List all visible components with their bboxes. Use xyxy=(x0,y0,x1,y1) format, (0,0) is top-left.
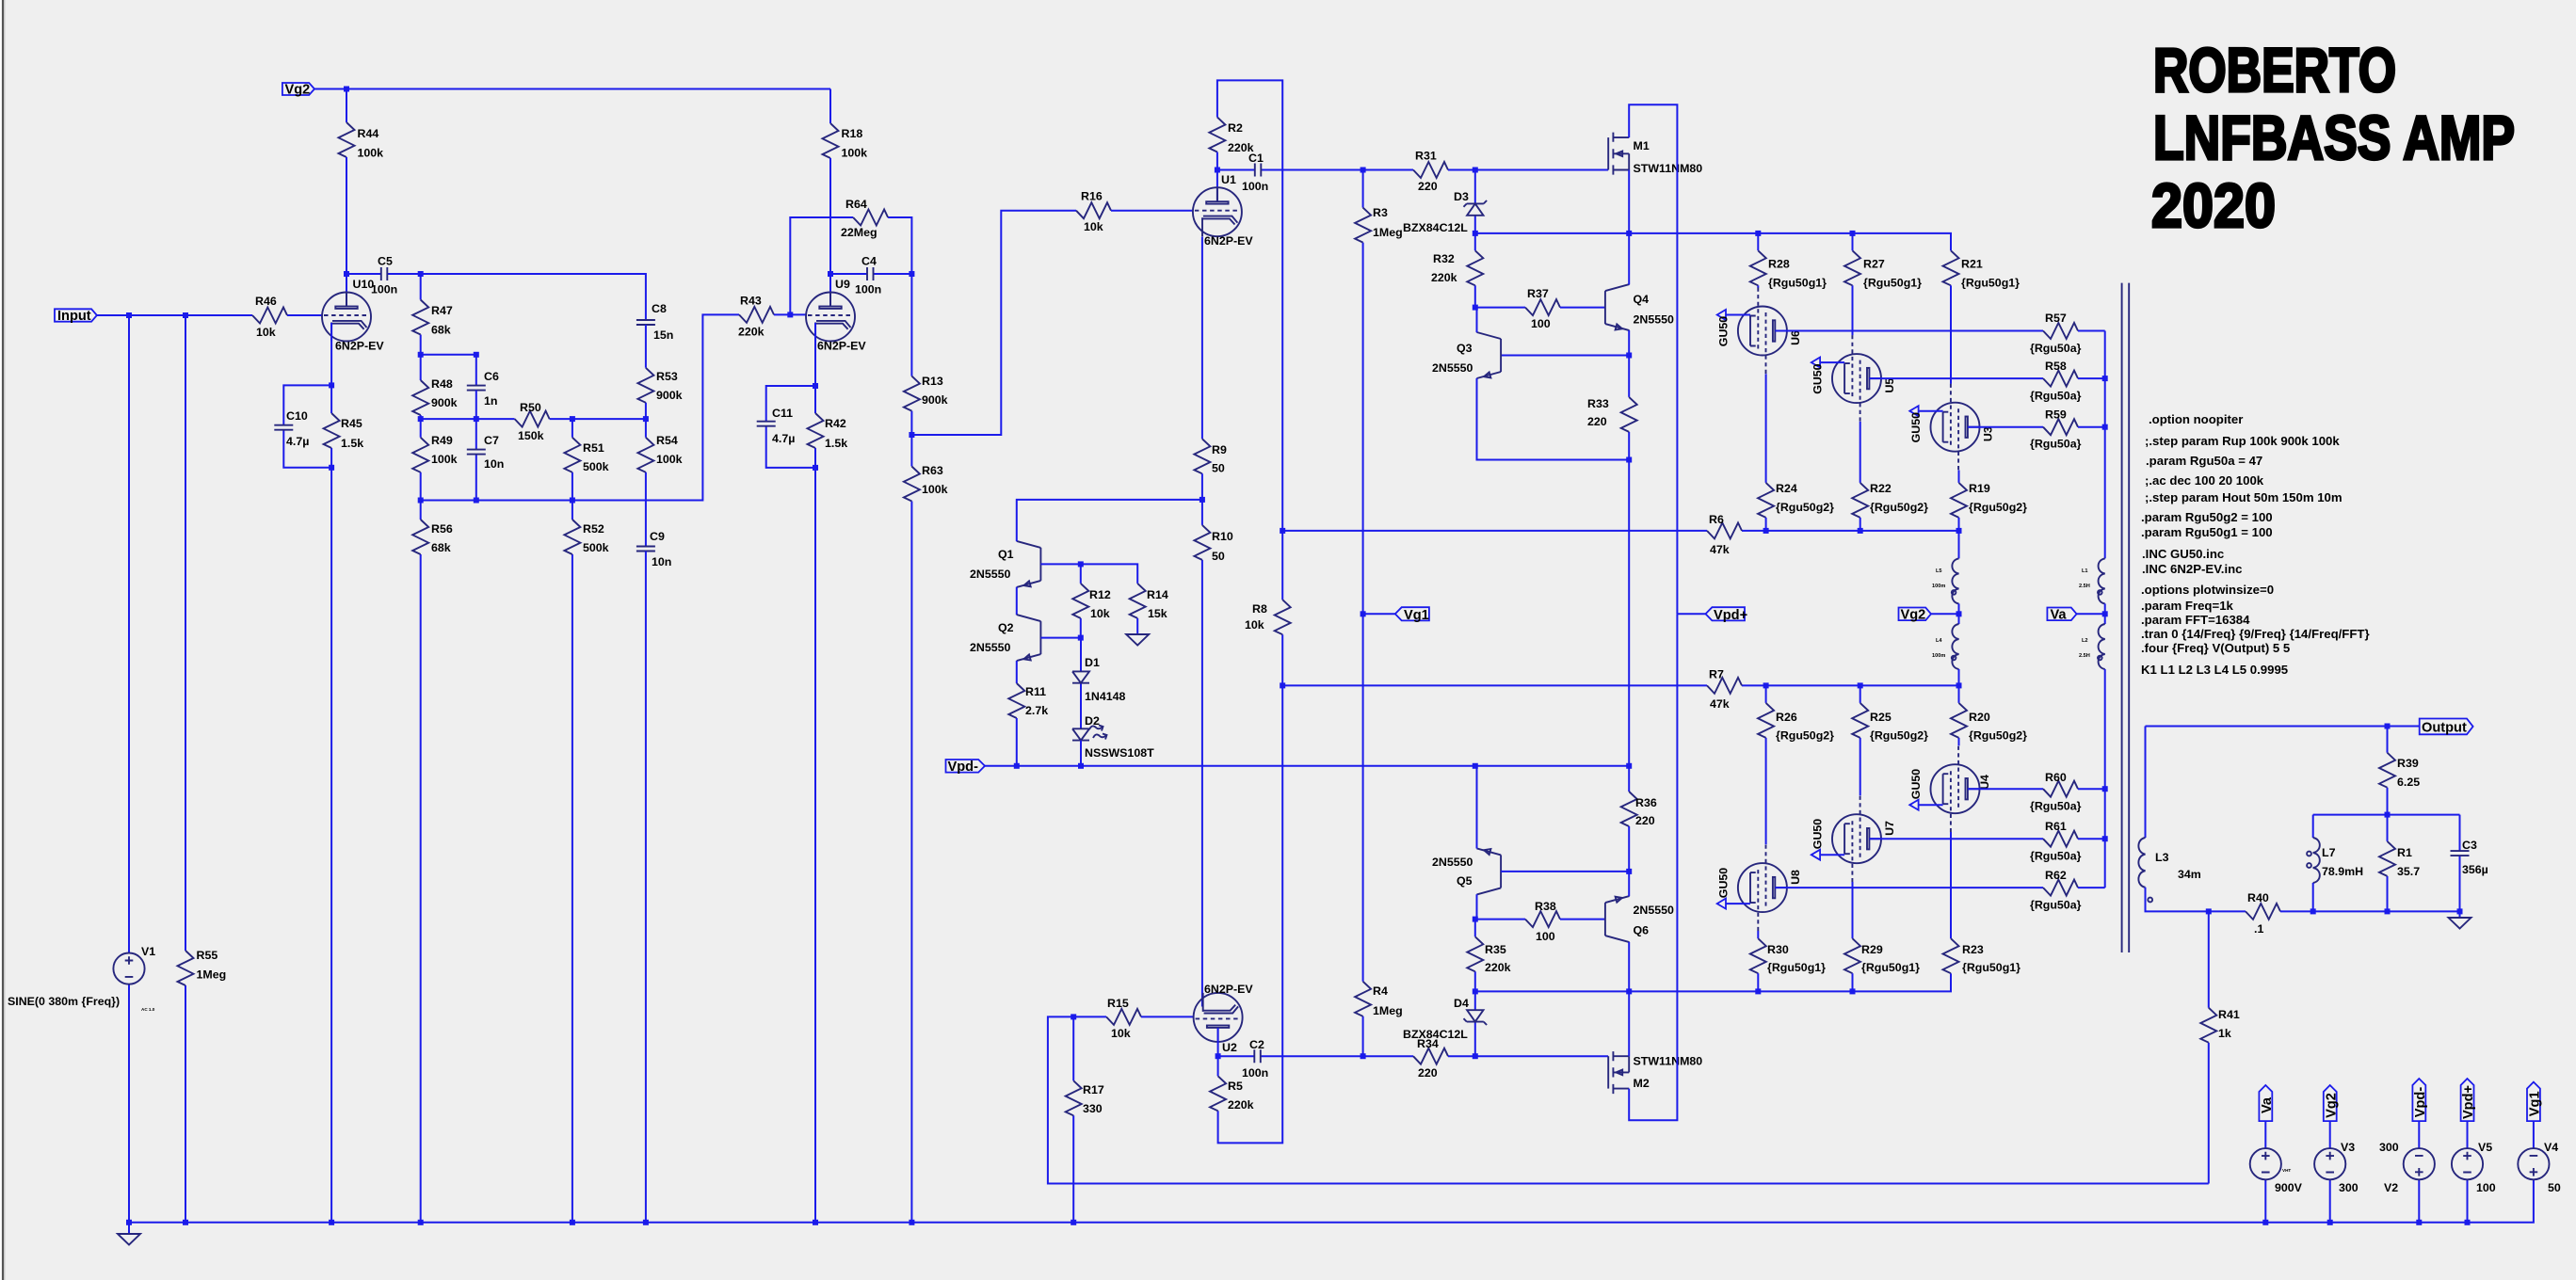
node Vpd- flag xyxy=(946,760,986,775)
junction R42 bottom xyxy=(813,465,818,471)
wire R47-C6 top row xyxy=(421,355,476,386)
transistor Q3 2N5550 xyxy=(1432,332,1501,378)
voltage source V3 Vg2 300 xyxy=(2314,1085,2359,1223)
svg-text:Q3: Q3 xyxy=(1457,342,1473,355)
svg-text:{Rgu50g2}: {Rgu50g2} xyxy=(1776,501,1834,514)
vacuum tube U6 GU50 xyxy=(1717,288,1803,375)
diode D1 1N4148 xyxy=(1072,638,1126,729)
svg-text:L3: L3 xyxy=(2155,851,2169,864)
resistor R39 xyxy=(2379,727,2420,815)
resistor R22 xyxy=(1852,482,1928,531)
junction L7 bottom xyxy=(2310,908,2316,914)
node Vpd+ flag xyxy=(1677,607,1747,623)
capacitor C11 xyxy=(757,386,815,468)
svg-text:{Rgu50g1}: {Rgu50g1} xyxy=(1861,961,1920,974)
wire U5 plate row to R58 xyxy=(1869,377,2043,379)
junction Vg2 tap xyxy=(1956,611,1962,616)
svg-text:Input: Input xyxy=(57,309,91,324)
junction R50/R51 xyxy=(570,416,575,422)
svg-text:U8: U8 xyxy=(1789,870,1802,885)
resistor R5 xyxy=(1210,1056,1254,1112)
svg-text:C8: C8 xyxy=(652,302,667,315)
svg-text:U7: U7 xyxy=(1883,821,1896,836)
wire Q2 emitter to R11 xyxy=(1016,661,1018,683)
resistor R14 xyxy=(1130,584,1168,634)
svg-text:U4: U4 xyxy=(1978,775,1991,790)
svg-text:1N4148: 1N4148 xyxy=(1085,690,1126,703)
wire top g1 rail xyxy=(1475,233,1951,250)
capacitor C3 xyxy=(2451,815,2488,912)
vacuum tube U4 GU50 xyxy=(1909,745,1991,832)
svg-text:{Rgu50a}: {Rgu50a} xyxy=(2030,438,2082,451)
svg-text:.param Rgu50a = 47: .param Rgu50a = 47 xyxy=(2146,454,2262,468)
junction R31/D3 xyxy=(1473,168,1478,173)
svg-text:300: 300 xyxy=(2339,1181,2359,1194)
svg-text:D2: D2 xyxy=(1085,714,1100,728)
wire R44 to U10 plate xyxy=(346,157,347,306)
resistor R19 xyxy=(1951,482,2027,531)
resistor R37 xyxy=(1525,287,1605,330)
wire Vg2 rail xyxy=(314,89,830,124)
svg-text:R33: R33 xyxy=(1587,397,1609,410)
svg-text:.param FFT=16384: .param FFT=16384 xyxy=(2141,613,2250,627)
svg-text:500k: 500k xyxy=(583,460,609,473)
svg-text:R43: R43 xyxy=(740,295,762,308)
svg-text:R18: R18 xyxy=(842,127,863,140)
resistor R24 xyxy=(1758,482,1834,531)
resistor R64 xyxy=(790,198,911,314)
svg-text:100k: 100k xyxy=(922,483,948,496)
wire U7 g1 to R29 xyxy=(1852,882,1854,938)
svg-text:220k: 220k xyxy=(1228,1098,1254,1112)
svg-text:10n: 10n xyxy=(484,457,504,471)
inductor L4 xyxy=(1932,614,1959,685)
wire U4 plate row to R60 xyxy=(1968,788,2043,790)
resistor R42 xyxy=(808,386,848,468)
svg-text:L2: L2 xyxy=(2082,638,2088,644)
junction rail R56 xyxy=(418,1220,424,1225)
resistor R45 xyxy=(324,385,364,467)
junction Q6e/R36 row xyxy=(1626,869,1632,874)
svg-text:.options plotwinsize=0: .options plotwinsize=0 xyxy=(2141,583,2274,597)
inductor L7 xyxy=(2307,815,2363,912)
junction g1 rail R29 xyxy=(1850,988,1856,994)
resistor R21 xyxy=(1943,250,2021,384)
svg-text:C6: C6 xyxy=(484,370,499,383)
capacitor C1 xyxy=(1217,152,1363,193)
svg-text:50: 50 xyxy=(1212,462,1225,475)
junction secondary bus R61 xyxy=(2102,836,2108,841)
capacitor C8 xyxy=(636,302,673,342)
svg-text:L1: L1 xyxy=(2082,568,2088,574)
window border left edge xyxy=(0,0,1,1280)
svg-text:LNFBASS AMP: LNFBASS AMP xyxy=(2153,103,2515,172)
svg-text:R57: R57 xyxy=(2045,312,2067,325)
svg-text:220k: 220k xyxy=(1485,961,1511,974)
wire R2 top to R8 column riser xyxy=(1217,80,1282,531)
junction Q1 base/R12 xyxy=(1078,561,1084,567)
svg-text:220: 220 xyxy=(1418,180,1438,193)
svg-text:100: 100 xyxy=(1531,317,1551,330)
svg-text:R30: R30 xyxy=(1767,943,1789,956)
svg-text:100n: 100n xyxy=(371,283,397,296)
ground at R14 xyxy=(1126,634,1149,646)
svg-text:R49: R49 xyxy=(431,434,453,447)
junction U2 plate node xyxy=(1216,1053,1221,1059)
zener diode D4 BZX84C12L xyxy=(1403,991,1487,1056)
junction g1 rail M2 source xyxy=(1626,988,1632,994)
wire U5 g2 to R22 xyxy=(1860,422,1861,483)
wire Vpd- rail xyxy=(985,765,1629,767)
vacuum tube U9 6N2P-EV xyxy=(806,278,866,353)
svg-text:R3: R3 xyxy=(1373,206,1388,219)
svg-text:220k: 220k xyxy=(1431,271,1457,284)
wire anode bus vertical xyxy=(2104,331,2106,559)
vacuum tube U10 6N2P-EV xyxy=(322,278,384,353)
svg-text:1.5k: 1.5k xyxy=(341,437,363,450)
svg-text:Va: Va xyxy=(2051,608,2068,623)
junction R13/R63 xyxy=(909,432,914,438)
wire C6 bottom xyxy=(475,391,477,420)
wire U10 cathode xyxy=(330,323,332,385)
resistor R31 xyxy=(1413,150,1608,194)
svg-text:Q1: Q1 xyxy=(998,548,1014,561)
svg-text:R39: R39 xyxy=(2397,757,2419,770)
junction rail V1 xyxy=(126,1220,132,1225)
svg-text:R16: R16 xyxy=(1081,190,1103,203)
junction anode bus R59 xyxy=(2102,424,2108,430)
wire U6 g2 to R24 xyxy=(1765,374,1767,483)
wire to R38 xyxy=(1475,919,1525,920)
svg-text:R44: R44 xyxy=(358,127,379,140)
svg-text:47k: 47k xyxy=(1710,697,1730,711)
voltage source V1 xyxy=(8,315,155,1223)
junction D3 bottom g1 rail xyxy=(1473,231,1478,236)
junction rail R52 xyxy=(570,1220,575,1225)
svg-text:10k: 10k xyxy=(1111,1027,1131,1040)
svg-text:V4: V4 xyxy=(2544,1141,2558,1154)
svg-text:100k: 100k xyxy=(431,453,458,466)
n-mosfet M2 STW11NM80 xyxy=(1608,1051,1702,1094)
svg-text:R21: R21 xyxy=(1961,258,1983,271)
svg-text:34m: 34m xyxy=(2178,868,2201,881)
resistor R60 xyxy=(2030,771,2105,813)
svg-text:100n: 100n xyxy=(855,283,881,296)
zener diode D3 BZX84C12L xyxy=(1403,170,1487,235)
svg-text:ROBERTO: ROBERTO xyxy=(2153,35,2396,104)
svg-text:{Rgu50g2}: {Rgu50g2} xyxy=(1969,729,2027,743)
node Output flag xyxy=(2420,719,2473,736)
resistor R53 xyxy=(637,325,682,419)
junction C6/row xyxy=(474,416,479,422)
wire R42 to ground rail xyxy=(814,468,816,1223)
junction Vpd-/R36 xyxy=(1626,763,1632,769)
svg-text:900k: 900k xyxy=(922,393,948,407)
svg-text:V5: V5 xyxy=(2478,1141,2492,1154)
wire Q1 base row xyxy=(1040,564,1137,584)
wire C5 node to C8 xyxy=(421,274,646,320)
wire grid to U9 xyxy=(790,313,807,315)
wire Output row xyxy=(2146,726,2420,728)
svg-text:.param Freq=1k: .param Freq=1k xyxy=(2141,599,2234,613)
junction R6/R22 xyxy=(1858,528,1863,534)
svg-text:2N5550: 2N5550 xyxy=(970,641,1011,654)
svg-text:U6: U6 xyxy=(1789,330,1802,345)
wire M2 drain to Vpd+ column xyxy=(1629,614,1677,1120)
inductor L3 xyxy=(2138,727,2208,912)
resistor R26 xyxy=(1758,685,1834,844)
svg-text:U5: U5 xyxy=(1883,378,1896,393)
svg-text:2N5550: 2N5550 xyxy=(1634,904,1675,917)
junction Q2 base/R12/D1 xyxy=(1078,635,1084,641)
junction R7/R26 xyxy=(1763,682,1769,688)
junction rail V5 xyxy=(2465,1220,2471,1225)
svg-text:M1: M1 xyxy=(1634,139,1650,152)
junction rail V3 xyxy=(2327,1220,2333,1225)
junction R7/R25 xyxy=(1858,682,1863,688)
junction R6/R24 xyxy=(1763,528,1769,534)
svg-text:100m: 100m xyxy=(1932,584,1945,589)
spice directive text block xyxy=(2141,412,2370,655)
svg-text:2.7k: 2.7k xyxy=(1025,704,1048,717)
svg-text:D1: D1 xyxy=(1085,656,1100,669)
svg-text:{Rgu50g2}: {Rgu50g2} xyxy=(1870,501,1928,514)
svg-text:C7: C7 xyxy=(484,434,499,447)
svg-text:R35: R35 xyxy=(1485,943,1506,956)
junction R49/R56 xyxy=(418,498,424,504)
svg-text:R1: R1 xyxy=(2397,846,2412,859)
resistor R38 xyxy=(1525,900,1605,943)
svg-text:R63: R63 xyxy=(922,464,943,477)
svg-text:R38: R38 xyxy=(1535,900,1556,913)
resistor R33 xyxy=(1587,356,1637,460)
resistor R49 xyxy=(412,419,457,500)
title text ROBERTO LNFBASS AMP 2020 xyxy=(2151,35,2515,240)
junction g1 rail R27 xyxy=(1850,231,1856,236)
junction U9 plate node xyxy=(828,271,833,277)
svg-text:6N2P-EV: 6N2P-EV xyxy=(1204,234,1253,248)
resistor R7 xyxy=(1707,668,1742,712)
resistor R23 xyxy=(1943,938,2021,974)
svg-text:R24: R24 xyxy=(1776,482,1797,495)
svg-text:VHT: VHT xyxy=(2282,1168,2291,1173)
svg-text:Vg1: Vg1 xyxy=(2528,1091,2543,1116)
svg-text:R40: R40 xyxy=(2247,891,2269,904)
wire U8 g1 to R30 xyxy=(1757,931,1759,938)
resistor R40 xyxy=(2246,891,2313,936)
junction C2/R4/R34 xyxy=(1360,1053,1366,1059)
wire U2 plate to C2 node xyxy=(1217,1028,1219,1056)
ground at C3 xyxy=(2449,911,2471,928)
svg-text:{Rgu50g2}: {Rgu50g2} xyxy=(1969,501,2027,514)
svg-text:L5: L5 xyxy=(1936,568,1942,574)
svg-text:R52: R52 xyxy=(583,522,604,536)
svg-text:100k: 100k xyxy=(656,453,683,466)
resistor R56 xyxy=(412,501,453,1223)
svg-text:.INC 6N2P-EV.inc: .INC 6N2P-EV.inc xyxy=(2142,562,2243,576)
svg-text:2N5550: 2N5550 xyxy=(1432,361,1473,375)
svg-text:U2: U2 xyxy=(1222,1041,1237,1054)
svg-text:C3: C3 xyxy=(2462,839,2477,852)
svg-text:1k: 1k xyxy=(2218,1027,2231,1040)
wire M1 source to rail xyxy=(1628,170,1630,233)
svg-text:GU50: GU50 xyxy=(1909,769,1923,799)
junction U1 plate node xyxy=(1215,168,1220,173)
junction Vpd-/Q5 emitter xyxy=(1473,763,1478,769)
svg-text:300: 300 xyxy=(2379,1141,2399,1154)
svg-text:U3: U3 xyxy=(1982,426,1995,441)
transistor Q2 2N5550 xyxy=(970,615,1040,661)
svg-text:35.7: 35.7 xyxy=(2397,865,2420,878)
svg-text:R46: R46 xyxy=(255,295,277,308)
svg-text:Output: Output xyxy=(2422,720,2467,735)
wire R2 bottom to U1 plate xyxy=(1216,152,1218,202)
junction rail R45 xyxy=(329,1220,334,1225)
voltage source V6 Va 900V xyxy=(2250,1085,2303,1223)
svg-text:22Meg: 22Meg xyxy=(841,226,877,239)
junction Input/V1 xyxy=(126,312,132,318)
svg-text:R9: R9 xyxy=(1212,443,1227,456)
svg-text:R56: R56 xyxy=(431,522,453,536)
svg-text:NSSWS108T: NSSWS108T xyxy=(1085,746,1154,760)
svg-text:L4: L4 xyxy=(1936,638,1942,644)
wire R45 to ground rail xyxy=(330,468,332,1223)
svg-text:C9: C9 xyxy=(650,530,665,543)
junction C7 bottom xyxy=(474,498,479,504)
junction R15/R17/feedback xyxy=(1071,1014,1076,1019)
wire Q3 base row xyxy=(1501,355,1629,357)
svg-text:R6: R6 xyxy=(1709,513,1724,526)
resistor R29 xyxy=(1844,938,1920,991)
svg-text:GU50: GU50 xyxy=(1811,819,1825,849)
svg-text:10k: 10k xyxy=(256,326,276,339)
junction R7/R20/L4 xyxy=(1956,682,1962,688)
svg-text:GU50: GU50 xyxy=(1717,868,1731,898)
junction R6/R19/L5 xyxy=(1956,528,1962,534)
svg-text:2020: 2020 xyxy=(2151,170,2276,240)
svg-text:R13: R13 xyxy=(922,375,943,388)
svg-text:10n: 10n xyxy=(652,555,671,568)
resistor R20 xyxy=(1951,685,2027,745)
wire Q4 collector xyxy=(1628,233,1630,284)
svg-text:GU50: GU50 xyxy=(1811,363,1825,393)
wire U6 plate row to R57 xyxy=(1775,330,2043,332)
node Va flag xyxy=(2047,608,2104,623)
resistor R10 xyxy=(1194,473,1232,1006)
svg-text:R45: R45 xyxy=(341,417,362,430)
svg-text:50: 50 xyxy=(1212,550,1225,563)
svg-text:V2: V2 xyxy=(2384,1181,2398,1194)
svg-text:R26: R26 xyxy=(1776,711,1797,724)
junction U10 cathode node xyxy=(329,382,334,388)
resistor R36 xyxy=(1621,792,1657,872)
svg-text:C11: C11 xyxy=(772,407,793,420)
svg-text:Vpd+: Vpd+ xyxy=(2461,1085,2476,1119)
wire to R34 xyxy=(1363,1055,1413,1057)
svg-text:.option noopiter: .option noopiter xyxy=(2149,412,2243,426)
svg-text:{Rgu50g1}: {Rgu50g1} xyxy=(1863,277,1922,290)
resistor R44 xyxy=(339,122,384,160)
svg-text:SINE(0 380m {Freq}): SINE(0 380m {Freq}) xyxy=(8,995,120,1008)
node Vg1 flag xyxy=(1363,607,1429,623)
svg-text:V1: V1 xyxy=(141,945,155,958)
svg-text:900k: 900k xyxy=(656,389,683,402)
junction C4/R64/R13 xyxy=(909,271,914,277)
svg-text:R50: R50 xyxy=(520,401,541,414)
junction g1 rail R30 xyxy=(1755,988,1761,994)
inductor L2 xyxy=(2079,614,2105,789)
svg-text:Q6: Q6 xyxy=(1634,924,1650,937)
resistor R1 xyxy=(2379,815,2420,912)
svg-text:R11: R11 xyxy=(1025,685,1046,698)
svg-text:2.5H: 2.5H xyxy=(2079,653,2090,659)
wire R13 node to R16 xyxy=(911,211,1076,435)
svg-text:{Rgu50a}: {Rgu50a} xyxy=(2030,390,2082,403)
svg-text:BZX84C12L: BZX84C12L xyxy=(1403,221,1468,234)
capacitor C4 xyxy=(830,255,911,296)
junction C5/R47 xyxy=(418,271,424,277)
junction R35/R38/Q5 xyxy=(1473,917,1478,922)
svg-text:R17: R17 xyxy=(1083,1083,1104,1096)
svg-text:.1: .1 xyxy=(2254,922,2263,936)
resistor R30 xyxy=(1750,938,1826,991)
svg-text:15k: 15k xyxy=(1148,607,1167,620)
svg-text:1Meg: 1Meg xyxy=(1373,1004,1403,1017)
wire U9 cathode xyxy=(814,323,816,386)
junction Vg2/R44 xyxy=(344,87,349,92)
svg-text:2N5550: 2N5550 xyxy=(1634,313,1675,327)
vacuum tube U3 GU50 xyxy=(1909,384,1994,471)
junction R34/D4 xyxy=(1473,1053,1478,1059)
junction rail R17 xyxy=(1071,1220,1076,1225)
svg-text:R27: R27 xyxy=(1863,258,1885,271)
junction R1 bottom xyxy=(2385,908,2391,914)
svg-text:K1 L1 L2 L3 L4 L5 0.9995: K1 L1 L2 L3 L4 L5 0.9995 xyxy=(2141,663,2288,677)
svg-text:C4: C4 xyxy=(861,255,877,268)
wire U3 g2 to R19 xyxy=(1958,471,1960,483)
resistor R18 xyxy=(823,123,868,160)
svg-text:100k: 100k xyxy=(842,147,868,160)
svg-text:{Rgu50a}: {Rgu50a} xyxy=(2030,850,2082,863)
svg-text:.four {Freq} V(Output) 5 5: .four {Freq} V(Output) 5 5 xyxy=(2141,641,2290,655)
capacitor C9 xyxy=(636,530,671,1223)
wire to R31 xyxy=(1363,169,1413,171)
wire Q6 collector to g1 rail xyxy=(1628,942,1630,992)
resistor R12 xyxy=(1072,564,1111,637)
svg-text:GU50: GU50 xyxy=(1717,316,1731,346)
svg-text:R19: R19 xyxy=(1969,482,1990,495)
capacitor C10 xyxy=(274,385,331,467)
svg-text:Vg2: Vg2 xyxy=(285,83,311,98)
svg-text:68k: 68k xyxy=(431,324,451,337)
svg-text:D3: D3 xyxy=(1454,190,1469,203)
junction secondary bus R60 xyxy=(2102,786,2108,792)
resistor R15 xyxy=(1106,997,1194,1040)
wire Q3 collector xyxy=(1476,308,1478,333)
svg-text:220: 220 xyxy=(1587,415,1607,428)
wire bottom g1 rail xyxy=(1475,973,1951,991)
junction R47/R48/C6 xyxy=(418,352,424,358)
svg-text:500k: 500k xyxy=(583,541,609,554)
svg-text:Va: Va xyxy=(2260,1096,2275,1113)
wire to R40 xyxy=(2209,910,2246,912)
svg-text:1.5k: 1.5k xyxy=(825,437,847,450)
svg-text:R55: R55 xyxy=(197,949,218,962)
svg-text:R61: R61 xyxy=(2045,820,2067,833)
svg-text:;.ac dec 100 20 100k: ;.ac dec 100 20 100k xyxy=(2145,473,2264,488)
svg-text:M2: M2 xyxy=(1634,1077,1650,1090)
svg-text:6N2P-EV: 6N2P-EV xyxy=(1204,983,1253,996)
